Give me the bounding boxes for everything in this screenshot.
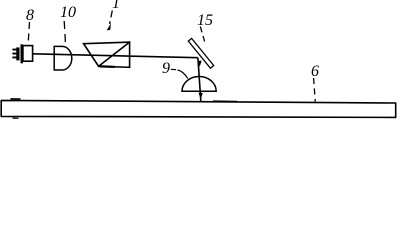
label 1 with arrow [107,0,120,31]
label 9 with curved leader [162,60,188,78]
optical disc 6 [1,99,396,118]
beam arrowhead (above disc) [199,93,203,99]
label 15 [197,12,213,42]
svg-text:15: 15 [197,12,213,29]
objective lens 9 [182,77,216,92]
svg-text:1: 1 [112,0,120,12]
svg-text:9: 9 [162,60,170,77]
svg-text:10: 10 [60,4,76,21]
mirror 15 [188,38,213,68]
label 8 [26,7,34,46]
svg-text:8: 8 [26,7,34,24]
svg-text:6: 6 [311,63,319,80]
label 6 [311,63,319,102]
label 10 [60,4,76,46]
beam shaping prism 1 [84,42,130,67]
horizontal beam wire [33,54,198,58]
beam arrowhead (below mirror) [197,61,201,67]
collimating lens 10 [54,46,72,70]
laser diode 8 [12,44,32,63]
vertical beam wire [198,58,201,103]
